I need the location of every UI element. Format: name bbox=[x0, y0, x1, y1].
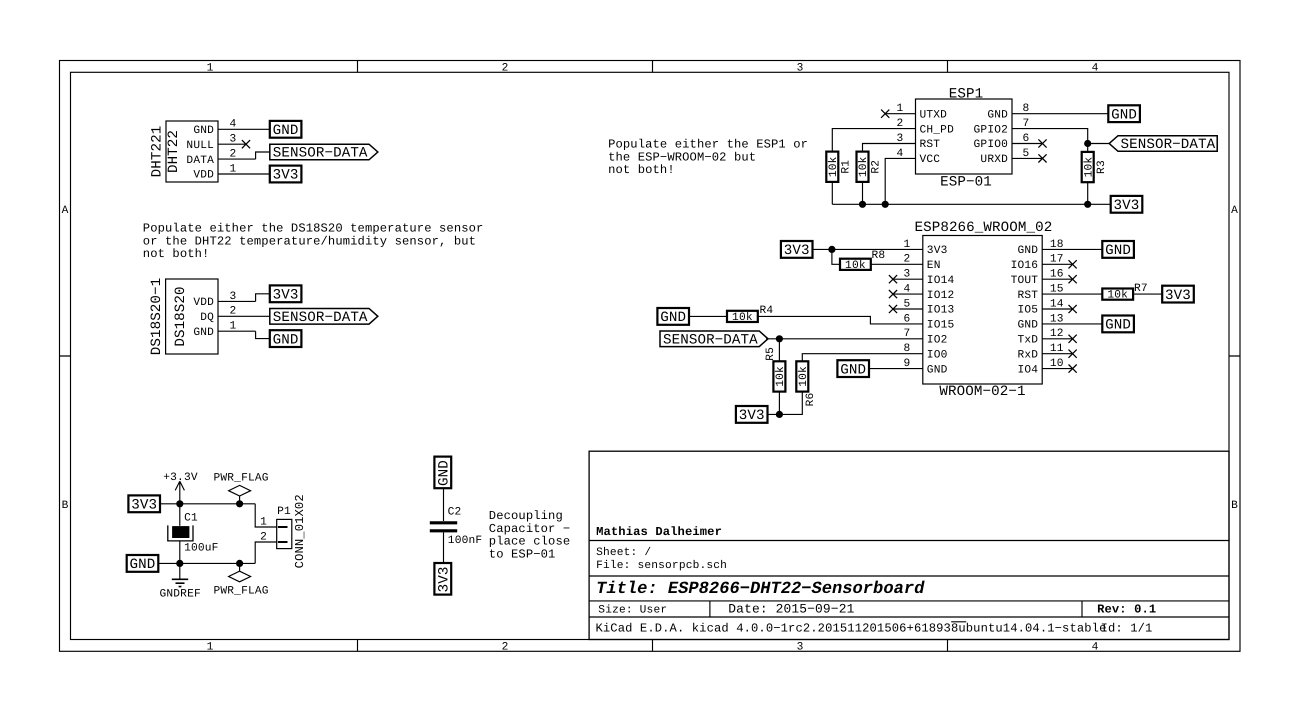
svg-text:GND: GND bbox=[437, 460, 453, 486]
svg-text:10k: 10k bbox=[797, 366, 810, 387]
svg-text:+3.3V: +3.3V bbox=[163, 472, 198, 484]
svg-text:A: A bbox=[1231, 205, 1238, 217]
svg-text:GND: GND bbox=[1018, 320, 1039, 332]
global label SENSOR-DATA (WROOM IO2) bbox=[660, 331, 768, 349]
junction R5/3V3/R6 bbox=[776, 411, 783, 418]
WROOM pin 18 (GND) wire bbox=[1042, 248, 1102, 250]
svg-text:Rev: 0.1: Rev: 0.1 bbox=[1097, 602, 1156, 616]
label GND on WROOM pin 18 bbox=[1102, 241, 1134, 259]
svg-text:GND: GND bbox=[1105, 243, 1131, 259]
wire GND label to R4 bbox=[689, 315, 727, 317]
DS18S20 pin 3 (VDD) bbox=[218, 291, 256, 303]
global label SENSOR-DATA (ESP1) bbox=[1109, 136, 1217, 154]
svg-text:GND: GND bbox=[660, 310, 686, 326]
wire GND to GND label bbox=[256, 331, 270, 338]
global label SENSOR-DATA (DHT22) bbox=[270, 144, 378, 162]
junction VCC/rail bbox=[882, 201, 889, 208]
no-connect X on ESP1 pin 1 bbox=[881, 110, 889, 118]
resistor R4 10k bbox=[727, 311, 758, 324]
svg-text:not both!: not both! bbox=[143, 247, 210, 261]
ESP1 pin 6 (GPIO0) stub bbox=[1012, 133, 1042, 145]
no-connect X on WROOM pin 16 bbox=[1069, 275, 1077, 283]
no-connect X on WROOM pin 17 bbox=[1069, 260, 1077, 268]
svg-text:R8: R8 bbox=[872, 250, 886, 262]
sheet frame inner border bbox=[71, 72, 1230, 639]
svg-text:3V3: 3V3 bbox=[273, 288, 299, 304]
no-connect X on WROOM pin 10 bbox=[1069, 365, 1077, 373]
svg-text:P1: P1 bbox=[277, 506, 291, 518]
svg-text:1: 1 bbox=[230, 163, 237, 175]
svg-text:10k: 10k bbox=[774, 366, 787, 387]
svg-text:RST: RST bbox=[1018, 290, 1039, 302]
svg-text:GNDREF: GNDREF bbox=[160, 588, 201, 600]
svg-text:A: A bbox=[62, 205, 69, 217]
label 3V3 on DS18S20 VDD bbox=[270, 285, 302, 303]
svg-text:IO4: IO4 bbox=[1018, 364, 1039, 376]
svg-text:100uF: 100uF bbox=[184, 543, 218, 555]
svg-text:GND: GND bbox=[1111, 107, 1137, 123]
svg-text:GPIO2: GPIO2 bbox=[974, 124, 1008, 136]
svg-text:or the DHT22 temperature/humid: or the DHT22 temperature/humidity sensor… bbox=[143, 234, 476, 248]
wire GND to C2 top bbox=[443, 488, 445, 521]
ESP1 pin 8 (GND) wire bbox=[1012, 103, 1108, 115]
svg-text:IO5: IO5 bbox=[1018, 305, 1039, 317]
svg-text:2: 2 bbox=[502, 642, 509, 654]
svg-text:GND: GND bbox=[193, 327, 214, 339]
svg-text:Title: ESP8266−DHT22−Sensorboa: Title: ESP8266−DHT22−Sensorboard bbox=[596, 580, 925, 599]
svg-text:TOUT: TOUT bbox=[1011, 275, 1039, 287]
svg-text:5: 5 bbox=[1023, 148, 1030, 160]
resistor R5 10k bbox=[773, 361, 787, 391]
svg-text:8: 8 bbox=[1023, 103, 1030, 115]
svg-text:6: 6 bbox=[1023, 133, 1030, 145]
junction 3V3/R8 bbox=[828, 246, 835, 253]
junction GND/C1/GNDREF bbox=[176, 560, 183, 567]
svg-text:PWR_FLAG: PWR_FLAG bbox=[214, 586, 269, 598]
svg-text:2: 2 bbox=[260, 531, 267, 543]
title block: overline over 38 bbox=[951, 621, 966, 623]
svg-text:R1: R1 bbox=[841, 160, 853, 174]
P1 pin 2 wire bbox=[255, 531, 277, 563]
title block column dividers bbox=[710, 601, 1082, 617]
ESP1 pin 2 (CH_PD) wire to R1 and 3V3 rail bbox=[832, 118, 915, 152]
label GND on WROOM pin 9 bbox=[837, 360, 869, 378]
svg-text:File: sensorpcb.sch: File: sensorpcb.sch bbox=[596, 559, 727, 572]
svg-text:IO16: IO16 bbox=[1011, 260, 1039, 272]
title block row lines bbox=[589, 541, 1229, 618]
wire DATA to SENSOR-DATA label bbox=[256, 152, 270, 159]
svg-text:DHT221: DHT221 bbox=[150, 126, 166, 178]
sensor DS18S20-1 (DS18S20) body bbox=[149, 278, 218, 356]
svg-text:1: 1 bbox=[230, 321, 237, 333]
label GND on DHT22 pin 4 bbox=[270, 121, 302, 139]
svg-text:RxD: RxD bbox=[1018, 349, 1039, 361]
title block outline bbox=[589, 451, 1229, 639]
svg-text:4: 4 bbox=[230, 119, 237, 131]
frame row tick marks bbox=[60, 355, 1241, 357]
note: populate either ESP1 or ESP-WROOM-02 bbox=[608, 137, 808, 177]
wire R5 bottom to 3V3 rail bbox=[778, 392, 780, 415]
wire to SENSOR-DATA label (ESP1) bbox=[1088, 143, 1110, 145]
wire 3V3 rail under ESP1 bbox=[832, 203, 1110, 205]
capacitor C1 100uF (polarized) bbox=[168, 504, 219, 564]
svg-text:2: 2 bbox=[230, 306, 237, 318]
wire VDD to 3V3 label bbox=[256, 294, 270, 302]
svg-text:DATA: DATA bbox=[186, 155, 214, 167]
junction SENSOR-DATA/R5 bbox=[776, 335, 783, 342]
label 3V3 on WROOM pin 1 bbox=[781, 241, 813, 259]
svg-text:10k: 10k bbox=[845, 259, 866, 272]
svg-text:10k: 10k bbox=[857, 156, 870, 177]
WROOM pin 4 stub bbox=[894, 293, 923, 295]
no-connect X on WROOM pin 11 bbox=[1069, 350, 1077, 358]
wire 3V3 to R6 bottom bbox=[768, 392, 803, 415]
svg-text:CONN_01X02: CONN_01X02 bbox=[293, 494, 307, 568]
DHT221 pin 1 (VDD) bbox=[218, 163, 270, 175]
note: decoupling capacitor bbox=[489, 509, 570, 562]
svg-text:GND: GND bbox=[840, 362, 866, 378]
svg-text:10k: 10k bbox=[827, 156, 840, 177]
svg-text:4: 4 bbox=[897, 148, 904, 160]
note: populate either DS18S20 or DHT22 bbox=[143, 221, 484, 261]
power flag +3.3V symbol bbox=[163, 472, 198, 504]
svg-text:TxD: TxD bbox=[1018, 335, 1039, 347]
module ESP1 (ESP-01) body bbox=[916, 86, 1013, 190]
resistor R3 10k bbox=[1082, 152, 1108, 182]
no-connect X on WROOM pin 14 bbox=[1069, 305, 1077, 313]
junction R2/rail bbox=[859, 201, 866, 208]
svg-text:GPIO0: GPIO0 bbox=[974, 139, 1009, 151]
no-connect X on WROOM pin 12 bbox=[1069, 335, 1077, 343]
svg-text:ESP8266_WROOM_02: ESP8266_WROOM_02 bbox=[914, 220, 1052, 236]
svg-text:3V3: 3V3 bbox=[739, 408, 765, 424]
svg-text:IO2: IO2 bbox=[927, 335, 948, 347]
WROOM pin 13 (GND) wire bbox=[1042, 323, 1102, 325]
svg-text:ESP−01: ESP−01 bbox=[940, 175, 992, 191]
svg-text:not both!: not both! bbox=[608, 163, 675, 177]
svg-text:GND: GND bbox=[987, 109, 1008, 121]
power flag PWR_FLAG (bottom) bbox=[214, 563, 269, 597]
svg-text:Populate either the DS18S20 te: Populate either the DS18S20 temperature … bbox=[143, 221, 484, 235]
svg-text:place close: place close bbox=[489, 535, 570, 549]
svg-text:4: 4 bbox=[1092, 62, 1099, 74]
svg-text:the ESP−WROOM−02 but: the ESP−WROOM−02 but bbox=[608, 150, 756, 164]
svg-text:1: 1 bbox=[207, 62, 214, 74]
svg-text:7: 7 bbox=[1023, 118, 1030, 130]
svg-text:R2: R2 bbox=[871, 160, 883, 174]
svg-text:3V3: 3V3 bbox=[1165, 288, 1191, 304]
WROOM pin 9 (GND) wire bbox=[869, 368, 923, 370]
WROOM pin 11 stub bbox=[1042, 353, 1072, 355]
DS18S20 pin 2 (DQ) bbox=[218, 306, 270, 318]
wire R2 bottom to rail bbox=[862, 182, 864, 204]
svg-text:SENSOR−DATA: SENSOR−DATA bbox=[1121, 137, 1216, 153]
svg-text:10k: 10k bbox=[1107, 289, 1128, 302]
WROOM pin 14 stub bbox=[1042, 308, 1072, 310]
DS18S20 pin 1 (GND) bbox=[218, 321, 256, 333]
ESP1 pin 3 (RST) wire to R2 bbox=[863, 133, 916, 152]
svg-text:1: 1 bbox=[260, 516, 267, 528]
svg-text:Sheet: /: Sheet: / bbox=[596, 546, 651, 559]
connector P1 CONN_01X02 bbox=[277, 494, 307, 568]
junction R3/rail bbox=[1084, 201, 1091, 208]
svg-text:to ESP−01: to ESP−01 bbox=[489, 548, 556, 562]
junction PWR_FLAG top bbox=[236, 500, 243, 507]
label GND on WROOM pin 13 bbox=[1102, 316, 1134, 334]
svg-text:10k: 10k bbox=[732, 311, 753, 324]
DHT221 pin 4 (GND) bbox=[218, 119, 270, 131]
svg-text:IO0: IO0 bbox=[927, 349, 948, 361]
sheet frame outer border bbox=[60, 61, 1241, 652]
no-connect X on ESP1 pin 6 bbox=[1038, 139, 1046, 147]
wire R7 to 3V3 bbox=[1133, 293, 1162, 295]
svg-text:3: 3 bbox=[230, 291, 237, 303]
svg-text:4: 4 bbox=[1092, 642, 1099, 654]
svg-text:KiCad E.D.A. kicad 4.0.0−1rc2: KiCad E.D.A. kicad 4.0.0−1rc2.2015112015… bbox=[596, 622, 1107, 636]
svg-text:GND: GND bbox=[1105, 318, 1131, 334]
svg-text:DS18S20−1: DS18S20−1 bbox=[149, 278, 165, 356]
wire 3V3 top rail bbox=[160, 503, 255, 505]
WROOM pin 16 stub bbox=[1042, 278, 1072, 280]
svg-text:3: 3 bbox=[230, 134, 237, 146]
resistor R1 10k bbox=[826, 152, 852, 182]
no-connect X on WROOM pin 5 bbox=[889, 305, 897, 313]
sensor DHT221 (DHT22) body bbox=[150, 121, 219, 182]
resistor R7 10k bbox=[1102, 289, 1133, 302]
svg-text:B: B bbox=[1231, 500, 1238, 512]
svg-text:PWR_FLAG: PWR_FLAG bbox=[214, 472, 269, 484]
svg-text:ESP1: ESP1 bbox=[949, 86, 983, 102]
svg-text:CH_PD: CH_PD bbox=[920, 124, 955, 136]
svg-text:SENSOR−DATA: SENSOR−DATA bbox=[663, 333, 758, 349]
ESP1 pin 5 (URXD) stub bbox=[1012, 148, 1042, 160]
wire SENSOR-DATA to WROOM pin 7 (IO2) bbox=[766, 338, 923, 340]
vertical label GND above C2 bbox=[434, 457, 452, 489]
P1 pin 1 wire bbox=[255, 504, 277, 529]
svg-text:VDD: VDD bbox=[193, 170, 214, 182]
resistor R8 10k bbox=[840, 259, 871, 272]
WROOM pin 12 stub bbox=[1042, 338, 1072, 340]
resistor R2 10k bbox=[857, 152, 883, 182]
svg-text:3: 3 bbox=[797, 62, 804, 74]
power flag PWR_FLAG (top) bbox=[214, 472, 269, 503]
svg-text:DHT22: DHT22 bbox=[166, 130, 182, 173]
WROOM pin 2 (EN) wire from R8 bbox=[871, 263, 923, 265]
svg-text:3: 3 bbox=[897, 133, 904, 145]
svg-text:10k: 10k bbox=[1082, 157, 1095, 178]
svg-text:GND: GND bbox=[927, 364, 948, 376]
WROOM pin 5 stub bbox=[894, 308, 923, 310]
label GND before R4 bbox=[657, 308, 689, 326]
svg-text:GND: GND bbox=[273, 123, 299, 139]
ESP1 pin 1 (UTXD) stub bbox=[886, 103, 916, 115]
svg-text:Populate either the ESP1 or: Populate either the ESP1 or bbox=[608, 137, 808, 151]
wire junction down to R5 bbox=[778, 339, 780, 362]
svg-text:DS18S20: DS18S20 bbox=[173, 286, 189, 346]
WROOM pin 15 (RST) wire to R7 bbox=[1042, 293, 1102, 295]
label 3V3 below R5/R6 bbox=[736, 406, 768, 424]
svg-text:WROOM−02−1: WROOM−02−1 bbox=[939, 384, 1025, 400]
svg-text:SENSOR−DATA: SENSOR−DATA bbox=[273, 310, 368, 326]
label 3V3 on DHT22 pin 1 bbox=[270, 166, 302, 184]
svg-text:Id: 1/1: Id: 1/1 bbox=[1101, 622, 1153, 636]
svg-text:Capacitor −: Capacitor − bbox=[489, 522, 570, 536]
svg-text:B: B bbox=[62, 500, 69, 512]
svg-text:C1: C1 bbox=[184, 513, 198, 525]
junction 3V3/C1/+3.3V bbox=[176, 500, 183, 507]
svg-text:Decoupling: Decoupling bbox=[489, 509, 563, 523]
label 3V3 power section bbox=[128, 495, 160, 513]
svg-text:SENSOR−DATA: SENSOR−DATA bbox=[273, 146, 368, 162]
svg-text:URXD: URXD bbox=[980, 154, 1008, 166]
svg-text:3V3: 3V3 bbox=[1114, 198, 1140, 214]
svg-text:2: 2 bbox=[230, 149, 237, 161]
svg-text:3V3: 3V3 bbox=[273, 168, 299, 184]
svg-text:R7: R7 bbox=[1134, 283, 1148, 295]
no-connect X on WROOM pin 4 bbox=[889, 290, 897, 298]
label GND power section bbox=[127, 555, 159, 573]
svg-text:3V3: 3V3 bbox=[131, 498, 157, 514]
ground GNDREF symbol bbox=[160, 563, 201, 600]
svg-text:R5: R5 bbox=[765, 347, 777, 361]
svg-text:DQ: DQ bbox=[200, 312, 214, 324]
wire C2 bottom to 3V3 bbox=[443, 532, 445, 563]
ESP1 pin 4 (VCC) wire to 3V3 rail bbox=[885, 148, 915, 205]
svg-text:RST: RST bbox=[920, 139, 941, 151]
wire junction down to R8 bbox=[832, 249, 840, 264]
svg-text:GND: GND bbox=[130, 557, 156, 573]
wire GND bottom rail bbox=[159, 562, 256, 564]
svg-text:2: 2 bbox=[502, 62, 509, 74]
svg-text:VCC: VCC bbox=[920, 154, 941, 166]
svg-text:Date: 2015−09−21: Date: 2015−09−21 bbox=[728, 601, 854, 616]
svg-text:3V3: 3V3 bbox=[784, 243, 810, 259]
junction PWR_FLAG bottom bbox=[236, 560, 243, 567]
capacitor C2 100nF bbox=[430, 506, 482, 547]
resistor R6 10k bbox=[796, 361, 810, 391]
label 3V3 after R7 bbox=[1162, 286, 1194, 304]
svg-text:GND: GND bbox=[1018, 245, 1039, 257]
junction GPIO2/R3/SENSOR-DATA bbox=[1084, 140, 1091, 147]
DHT221 pin 2 (DATA) bbox=[218, 149, 256, 161]
svg-text:1: 1 bbox=[207, 642, 214, 654]
svg-text:VDD: VDD bbox=[193, 297, 214, 309]
no-connect X on ESP1 pin 5 bbox=[1038, 154, 1046, 162]
svg-text:R4: R4 bbox=[760, 305, 774, 317]
module ESP8266_WROOM_02 (WROOM-02-1) body bbox=[914, 220, 1052, 400]
svg-text:C2: C2 bbox=[448, 506, 462, 518]
svg-text:100nF: 100nF bbox=[448, 535, 482, 547]
svg-text:IO14: IO14 bbox=[927, 275, 955, 287]
wire R3 bottom to rail bbox=[1087, 182, 1089, 204]
svg-text:GND: GND bbox=[273, 332, 299, 348]
svg-text:GND: GND bbox=[193, 125, 214, 137]
vertical label 3V3 below C2 bbox=[434, 563, 452, 595]
label GND on ESP1 pin 8 bbox=[1108, 105, 1140, 123]
label GND on DS18S20 GND bbox=[270, 330, 302, 348]
WROOM pin 17 stub bbox=[1042, 263, 1072, 265]
label 3V3 on ESP1 rail bbox=[1111, 196, 1143, 214]
svg-text:R6: R6 bbox=[805, 393, 817, 407]
svg-text:NULL: NULL bbox=[186, 140, 214, 152]
svg-text:UTXD: UTXD bbox=[920, 109, 948, 121]
ESP1 pin 7 (GPIO2) wire down to R3/SENSOR-DATA bbox=[1012, 118, 1088, 152]
global label SENSOR-DATA (DS18S20) bbox=[270, 309, 378, 327]
svg-text:1: 1 bbox=[897, 103, 904, 115]
svg-text:R3: R3 bbox=[1096, 160, 1108, 174]
wire R1 bottom to rail bbox=[831, 182, 833, 204]
wire R6 top to WROOM pin 8 (IO0) bbox=[802, 354, 923, 362]
frame column tick marks bbox=[358, 61, 948, 652]
svg-text:EN: EN bbox=[927, 260, 941, 272]
svg-text:3: 3 bbox=[797, 642, 804, 654]
svg-text:IO12: IO12 bbox=[927, 290, 955, 302]
svg-text:3V3: 3V3 bbox=[437, 567, 453, 593]
svg-text:3V3: 3V3 bbox=[927, 245, 948, 257]
svg-text:Mathias Dalheimer: Mathias Dalheimer bbox=[596, 525, 722, 539]
wire R4 to WROOM pin 6 (IO15) bbox=[758, 316, 923, 324]
no-connect X on WROOM pin 3 bbox=[889, 275, 897, 283]
no-connect X on DHT221 pin 3 bbox=[242, 140, 250, 148]
WROOM pin 10 stub bbox=[1042, 368, 1072, 370]
svg-text:IO13: IO13 bbox=[927, 305, 955, 317]
svg-text:2: 2 bbox=[897, 118, 904, 130]
WROOM pin 1 (3V3) wire bbox=[813, 248, 923, 250]
WROOM pin 3 stub bbox=[894, 278, 923, 280]
DHT221 pin 3 (NULL) bbox=[218, 134, 246, 146]
svg-text:Size: User: Size: User bbox=[598, 603, 667, 616]
svg-text:IO15: IO15 bbox=[927, 320, 955, 332]
